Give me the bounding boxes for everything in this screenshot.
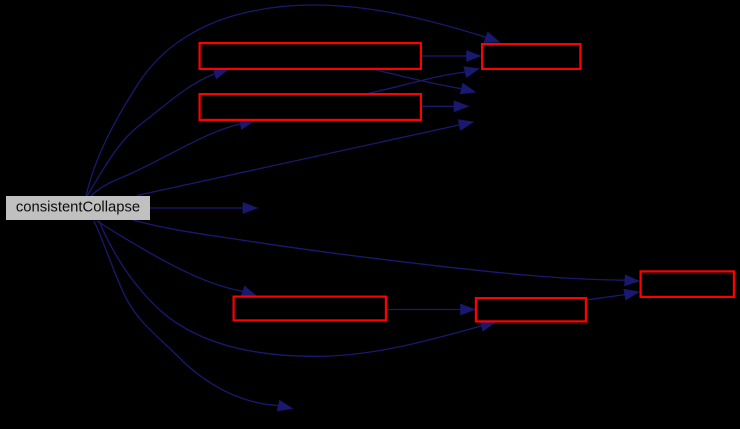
- node3 (red box top-right): [482, 44, 580, 69]
- svg-text:consistentCollapse: consistentCollapse: [16, 200, 140, 216]
- edge node1 to hidden node: [376, 70, 475, 94]
- node6 (red box right): [641, 271, 734, 297]
- edge consistentCollapse to node1: [87, 69, 228, 196]
- node1 (red box top-left): [200, 43, 421, 69]
- edge consistentCollapse to hidden node I: [94, 221, 292, 411]
- edge node1 to node3: [422, 51, 481, 61]
- edge consistentCollapse to node4: [97, 221, 256, 296]
- edge consistentCollapse to node5: [99, 221, 495, 356]
- edge node5 to node6: [587, 290, 639, 300]
- edge consistentCollapse to node2: [91, 119, 254, 196]
- edge consistentCollapse to hidden node E: [150, 203, 257, 213]
- edge consistentCollapse to hidden node D: [137, 120, 473, 196]
- edge node2 to node3: [368, 67, 479, 94]
- node5 (red box bottom-middle): [476, 298, 586, 321]
- node2 (red box second): [200, 94, 421, 120]
- edge consistentCollapse to node6: [133, 220, 639, 285]
- node consistentCollapse (grey box): [6, 196, 150, 220]
- edge node4 to node5: [387, 304, 475, 314]
- edge node2 to hidden node: [422, 101, 468, 111]
- node4 (red box bottom-left): [234, 297, 386, 321]
- edge consistentCollapse to node3 (top arc): [86, 5, 499, 196]
